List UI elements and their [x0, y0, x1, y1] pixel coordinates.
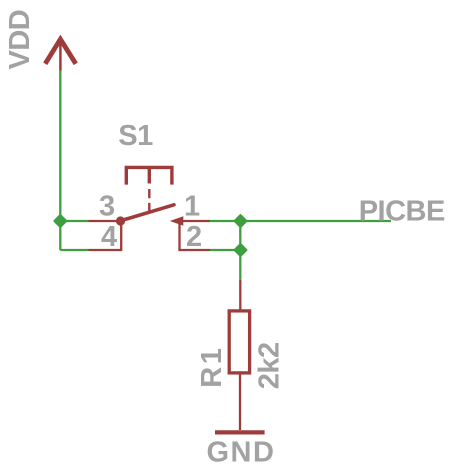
svg-text:1: 1 [184, 191, 200, 223]
svg-text:4: 4 [101, 221, 117, 253]
switch lever [121, 205, 175, 221]
wire junction B to PICBE [241, 220, 392, 222]
switch actuator bracket [126, 167, 172, 184]
ground bar [215, 430, 265, 434]
wire junction B to C and down [239, 221, 241, 280]
wire pin2 to junction C [210, 249, 241, 251]
switch pivot dot [116, 216, 125, 225]
svg-text:S1: S1 [118, 120, 153, 152]
resistor R1 body [229, 311, 249, 373]
wire pin4 bottom horizontal [60, 249, 88, 251]
svg-text:3: 3 [99, 191, 115, 223]
switch dashed link [148, 189, 150, 212]
junction A [55, 215, 66, 226]
svg-text:GND: GND [207, 437, 276, 469]
wire resistor bottom pin [239, 374, 241, 430]
switch S1 body [121, 167, 175, 220]
wire pin1 to junction B [210, 220, 241, 222]
pin 2 [178, 222, 210, 250]
svg-text:2k2: 2k2 [253, 342, 285, 389]
pin 4 [89, 223, 122, 251]
svg-text:VDD: VDD [4, 10, 36, 70]
wire resistor top pin [239, 280, 241, 310]
junction B [235, 215, 246, 226]
wire VDD vertical [59, 71, 61, 250]
junction C [235, 244, 246, 255]
svg-text:2: 2 [186, 221, 202, 253]
svg-text:R1: R1 [196, 346, 228, 388]
wire node-left horizontal pin3 [60, 220, 88, 222]
pin 1 [181, 220, 210, 222]
power symbol VDD arrow [45, 39, 76, 71]
switch contact arrow [170, 216, 184, 225]
pin 3 [89, 220, 118, 222]
svg-text:PICBE: PICBE [359, 196, 445, 228]
